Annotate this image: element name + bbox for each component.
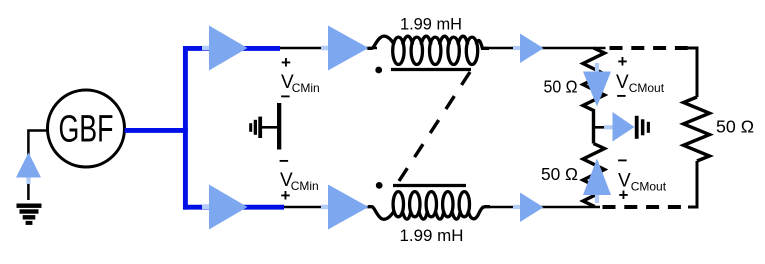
node C: top V_CMout labels [616,52,665,106]
inductor L1 1.99 mH (top) [368,36,490,64]
wire: right branch top corner [688,48,697,97]
transformer coupling diagonal (dashed) [399,72,470,181]
wire: top branch black [280,47,377,50]
svg-text:50 Ω: 50 Ω [544,77,578,97]
generator GBF [48,90,125,167]
svg-text:+: + [281,53,291,72]
wire: blue bottom branch [183,205,284,210]
wire: blue bus GBF to split [125,128,188,133]
svg-text:+: + [618,52,628,71]
svg-text:+: + [619,186,629,205]
resistor R1 50 ohm (top of divider) [583,48,605,144]
svg-text:−: − [279,152,289,171]
wire: dashed top edge [610,46,690,50]
svg-text:1.99 mH: 1.99 mH [400,16,462,34]
wire: bottom rail to load [482,206,601,209]
buffer arrow top 2 [321,26,369,71]
arrow (right) at mid junction [604,112,635,142]
resistor R3 50 ohm (load) [684,97,710,161]
wire: right branch bottom corner [688,161,697,207]
transformer core bar bottom [393,184,466,187]
buffer arrow bottom 1 [202,185,248,230]
svg-text:GBF: GBF [59,109,114,151]
svg-text:−: − [617,87,627,106]
inductor L2 1.99 mH (bottom) [368,192,490,220]
wire: GBF left stub to ground [28,131,48,201]
arrow (up) on ground wire [16,153,41,185]
wire: top rail to load [484,47,606,50]
svg-text:1.99 mH: 1.99 mH [400,227,464,245]
wire: mid junction to CM reference [594,126,613,129]
common-mode reference symbol (chassis ground, right) [635,116,650,139]
signal arrow top (small) [513,34,544,64]
wire: dashed bottom edge [603,205,690,209]
node B: bottom V_CMin labels [279,152,319,206]
dot (phasing) top [375,67,382,74]
wire: bottom branch black [284,206,374,209]
svg-text:−: − [281,87,291,106]
buffer arrow bottom 2 [321,185,369,230]
arrow (down) on R1 [583,63,611,107]
arrow (up) on R2 [583,159,611,204]
signal arrow bottom (small) [513,193,544,223]
wire: blue top branch [183,46,280,51]
node A: top V_CMin labels [281,53,320,106]
svg-text:50 Ω: 50 Ω [541,164,578,184]
svg-text:+: + [281,186,291,205]
buffer arrow top 1 [202,26,248,71]
common-mode reference symbol (chassis ground, left) [249,103,281,150]
resistor R2 50 ohm (bottom of divider) [583,144,605,208]
ground [17,204,42,225]
wire: blue vertical bus [183,46,188,210]
transformer core bar top [391,68,471,71]
dot (phasing) bottom [376,182,383,189]
svg-text:−: − [618,151,628,170]
node D: bottom V_CMout labels [618,151,667,205]
svg-text:50 Ω: 50 Ω [716,117,754,137]
